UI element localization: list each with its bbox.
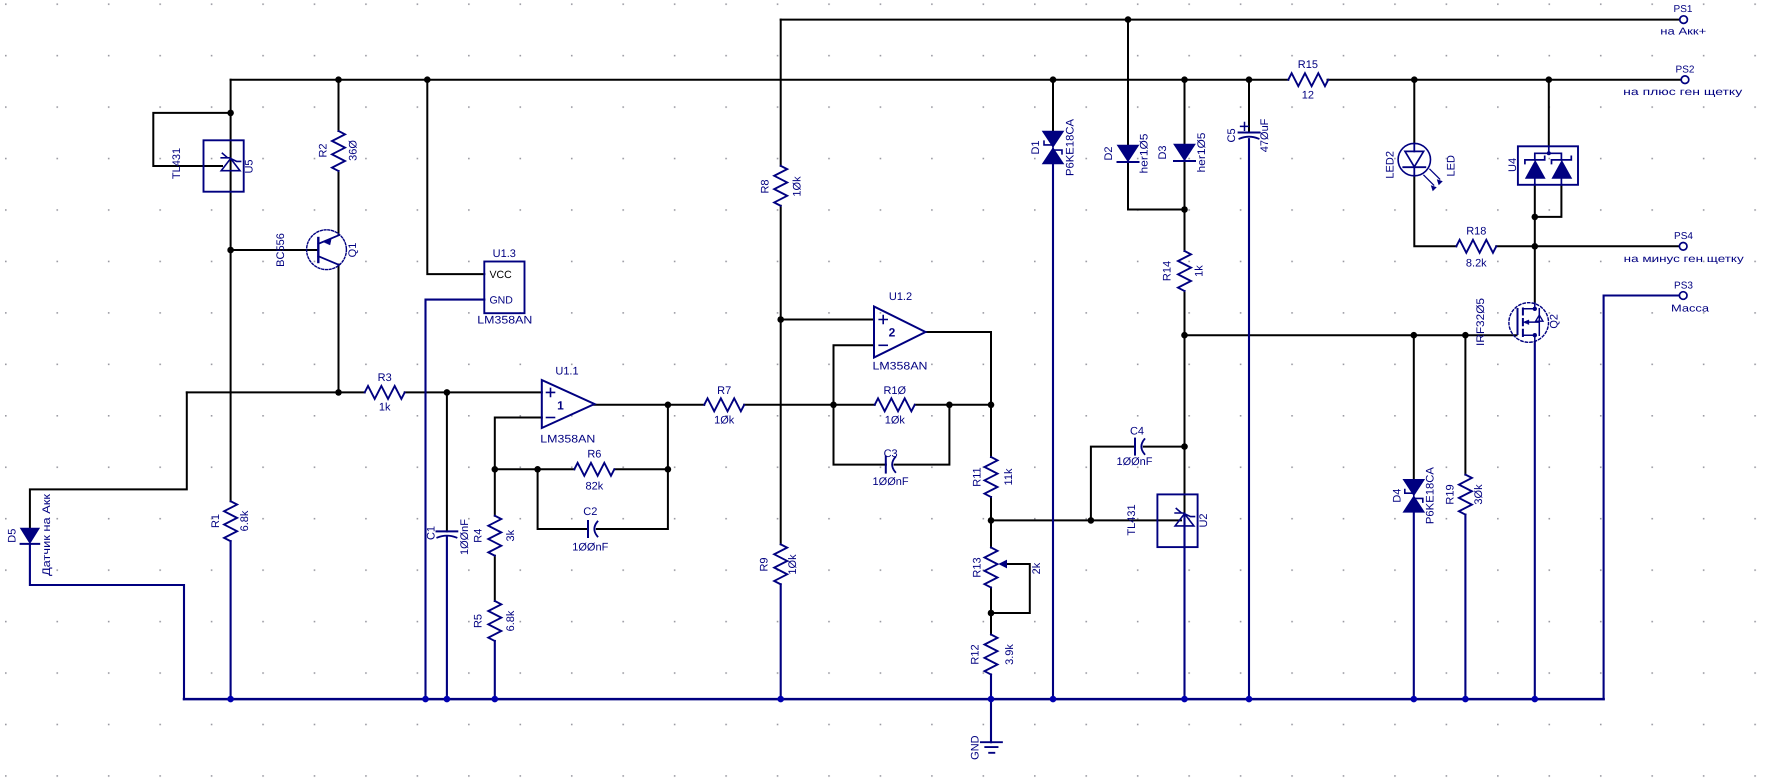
svg-text:D4: D4 xyxy=(1392,489,1404,503)
wire U4 cathode lead xyxy=(1548,80,1550,147)
svg-text:1Øk: 1Øk xyxy=(714,415,735,427)
junction (230.6,250) xyxy=(227,247,234,254)
junction ground rail (1465.4,699.1) xyxy=(1462,696,1469,703)
junction ground rail (425.5,699.1) xyxy=(422,696,429,703)
svg-text:LM358AN: LM358AN xyxy=(477,315,532,327)
junction (1414.3,79.7) xyxy=(1411,76,1418,83)
svg-text:PS2: PS2 xyxy=(1676,65,1695,76)
wire R4 top lead xyxy=(494,469,496,515)
svg-text:R1: R1 xyxy=(210,514,222,528)
wire R8 bottom to R9 top xyxy=(780,206,782,545)
capacitor C3 xyxy=(885,457,887,473)
junction ground rail (1534.8,699.1) xyxy=(1532,696,1539,703)
resistor R5 xyxy=(488,601,501,641)
svg-text:1ØØnF: 1ØØnF xyxy=(873,476,909,488)
svg-text:1ØØnF: 1ØØnF xyxy=(1116,456,1152,468)
TVS diode D4 xyxy=(1403,480,1424,496)
wire R13 top lead xyxy=(990,520,992,547)
wire Q1 emitter down to R3 node xyxy=(338,265,340,393)
resistor R3 xyxy=(365,386,405,399)
wire D5 bottom to ground rail xyxy=(30,545,184,699)
junction (1090.9,520.4) xyxy=(1088,517,1095,524)
svg-text:GND: GND xyxy=(969,735,981,760)
junction (1548.8,79.7) xyxy=(1546,76,1553,83)
wire R19 bottom lead xyxy=(1464,515,1466,700)
svg-text:1: 1 xyxy=(557,398,564,412)
wire C3 right branch xyxy=(895,405,950,465)
wire U1.3 GND xyxy=(426,300,485,699)
pin PS4 xyxy=(1679,243,1687,251)
resistor R10 xyxy=(875,398,915,411)
svg-text:R4: R4 xyxy=(472,529,484,543)
wire LED2 to R18 xyxy=(1414,176,1456,247)
junction (1413.8,335.2) xyxy=(1411,332,1418,339)
svg-text:P6KE18CA: P6KE18CA xyxy=(1425,466,1437,524)
svg-text:36Ø: 36Ø xyxy=(347,140,359,161)
svg-text:1k: 1k xyxy=(379,402,391,414)
shunt regulator U2 TL431 xyxy=(1157,494,1197,547)
wire R5 bottom lead xyxy=(494,641,496,699)
junction (1249,79.7) xyxy=(1246,76,1253,83)
dual schottky U4 xyxy=(1518,146,1578,185)
svg-text:47ØuF: 47ØuF xyxy=(1259,118,1271,152)
svg-text:GND: GND xyxy=(490,294,514,306)
svg-text:1ØØnF: 1ØØnF xyxy=(459,519,471,555)
junction (338.5,392.4) xyxy=(335,389,342,396)
junction ground rail (1053,699.1) xyxy=(1050,696,1057,703)
capacitor C1 xyxy=(437,530,458,532)
resistor R7 xyxy=(704,398,744,411)
svg-text:U4: U4 xyxy=(1507,158,1519,172)
wire U1.2 - input branch xyxy=(834,345,874,405)
op-amp U1.2 xyxy=(874,307,926,358)
resistor R1 xyxy=(224,501,237,541)
wire R11 bottom lead xyxy=(990,497,992,520)
wire R13 wiper link xyxy=(991,564,1030,613)
junction (537.6,469.3) xyxy=(534,466,541,473)
junction ground rail (230.6,699.1) xyxy=(227,696,234,703)
wire GND symbol stub xyxy=(990,699,992,742)
wire feedback node to R6 xyxy=(495,468,575,470)
junction (1534.8,246.3) xyxy=(1532,243,1539,250)
junction (1184.5,209.5) xyxy=(1181,206,1188,213)
svg-text:LM358AN: LM358AN xyxy=(873,360,928,372)
svg-text:3.9k: 3.9k xyxy=(1004,644,1016,665)
wire D1 bottom lead xyxy=(1052,164,1054,699)
diode D5 xyxy=(21,528,40,543)
wire left vertical x=230 xyxy=(230,80,232,502)
resistor R14 xyxy=(1178,251,1191,291)
wire R12 bottom lead xyxy=(990,675,992,700)
svg-text:C1: C1 xyxy=(425,526,437,540)
junction (949.4,404.8) xyxy=(946,402,953,409)
junction ground rail (991,699.1) xyxy=(988,696,995,703)
wire R14 top lead xyxy=(1184,210,1186,252)
junction (494.8,469.3) xyxy=(492,466,499,473)
TVS diode D1 xyxy=(1043,131,1064,147)
svg-text:PS4: PS4 xyxy=(1674,231,1693,242)
svg-text:R14: R14 xyxy=(1161,261,1173,281)
junction ground rail (446.9,699.1) xyxy=(444,696,451,703)
junction (1053,79.7) xyxy=(1050,76,1057,83)
svg-text:R13: R13 xyxy=(971,557,983,577)
wire R4-R5 series link xyxy=(494,556,496,601)
resistor R2 xyxy=(332,131,345,171)
svg-text:U1.2: U1.2 xyxy=(889,291,912,303)
svg-text:R3: R3 xyxy=(378,372,392,384)
svg-text:R1Ø: R1Ø xyxy=(883,385,906,397)
svg-text:LED2: LED2 xyxy=(1385,151,1397,179)
wire PS2 rail right part xyxy=(1328,79,1682,81)
junction (1465.4,335.2) xyxy=(1462,332,1469,339)
wire U1.1 output xyxy=(594,404,704,406)
diode D3 xyxy=(1174,144,1195,160)
wire ground rail xyxy=(184,698,1604,701)
junction (991,613) xyxy=(988,610,995,617)
wire D2 bottom to R14 node xyxy=(1128,163,1185,210)
svg-text:D1: D1 xyxy=(1030,140,1042,154)
svg-text:1Øk: 1Øk xyxy=(787,554,799,575)
wire gate line xyxy=(1185,334,1517,336)
wire U1.1 - input xyxy=(495,418,542,470)
wire PS2 rail left part xyxy=(231,79,1289,81)
resistor R4 xyxy=(488,516,501,556)
diode D2 xyxy=(1118,145,1139,161)
wire R2 bottom to Q1 collector xyxy=(338,171,340,235)
junction (1128,19.6) xyxy=(1125,16,1132,23)
svg-text:P6KE18CA: P6KE18CA xyxy=(1065,118,1077,176)
resistor R6 xyxy=(574,463,614,476)
resistor R12 xyxy=(985,635,998,675)
wire top rail PS1 net xyxy=(781,19,1680,21)
svg-text:LED: LED xyxy=(1446,155,1458,176)
svg-text:C4: C4 xyxy=(1130,425,1144,437)
wire C3 left branch xyxy=(834,405,886,465)
svg-text:Масса: Масса xyxy=(1671,304,1710,315)
svg-text:на плюс ген щетку: на плюс ген щетку xyxy=(1623,87,1742,98)
svg-text:2: 2 xyxy=(889,325,896,339)
wire U2 anode lead xyxy=(1183,514,1185,700)
junction (1184.5,446.6) xyxy=(1181,443,1188,450)
wire R3 right segment to U1.1 + xyxy=(405,391,542,393)
svg-text:12: 12 xyxy=(1302,90,1314,102)
ground symbol GND xyxy=(981,742,1002,753)
svg-text:U1.3: U1.3 xyxy=(493,248,516,260)
junction (991,520.4) xyxy=(988,517,995,524)
svg-text:R9: R9 xyxy=(759,557,771,571)
svg-text:VCC: VCC xyxy=(490,269,513,281)
resistor R15 xyxy=(1288,73,1328,86)
junction (991,404.8) xyxy=(988,402,995,409)
svg-text:3k: 3k xyxy=(505,529,517,541)
wire U4 anode leads xyxy=(1535,185,1562,217)
svg-text:D2: D2 xyxy=(1103,146,1115,160)
junction (1184.5,335.2) xyxy=(1181,332,1188,339)
wire R12 top lead xyxy=(990,613,992,635)
pin PS1 xyxy=(1680,16,1688,24)
LED LED2 xyxy=(1398,143,1430,175)
svg-text:на минус ген щетку: на минус ген щетку xyxy=(1624,254,1744,265)
svg-text:1ØØnF: 1ØØnF xyxy=(572,541,608,553)
trimmer R13 xyxy=(985,548,998,588)
wire Q1 base xyxy=(231,249,317,251)
wire D2 column xyxy=(1127,20,1129,146)
svg-text:PS3: PS3 xyxy=(1674,281,1693,292)
svg-text:C3: C3 xyxy=(884,448,898,460)
junction (230.6,112.9) xyxy=(227,110,234,117)
svg-text:R19: R19 xyxy=(1445,484,1457,504)
svg-text:C5: C5 xyxy=(1226,128,1238,142)
wire R11 top lead xyxy=(990,405,992,457)
capacitor C4 xyxy=(1134,439,1136,455)
wire R18 right to PS4 xyxy=(1496,245,1679,247)
wire PS3 Massa line xyxy=(1604,296,1680,700)
junction (446.9,392.4) xyxy=(444,389,451,396)
wire U1.2 output xyxy=(926,332,992,405)
wire R13 bottom lead xyxy=(990,588,992,614)
wire C1 top lead xyxy=(446,392,448,531)
op-amp power U1.3 xyxy=(484,262,524,314)
wire U1.2 + input xyxy=(781,319,874,321)
wire R19 top lead xyxy=(1464,335,1466,474)
junction ground rail (1413.8,699.1) xyxy=(1411,696,1418,703)
svg-text:IRF32Ø5: IRF32Ø5 xyxy=(1475,298,1487,346)
svg-text:82k: 82k xyxy=(586,480,604,492)
wire TL431 U2 ref line xyxy=(991,519,1181,521)
svg-text:R2: R2 xyxy=(318,143,330,157)
svg-text:R7: R7 xyxy=(717,385,731,397)
svg-text:на Акк+: на Акк+ xyxy=(1660,26,1706,37)
svg-text:PS1: PS1 xyxy=(1674,4,1693,15)
resistor R9 xyxy=(774,544,787,584)
svg-text:D3: D3 xyxy=(1157,145,1169,159)
wire D4 bottom lead xyxy=(1413,513,1415,699)
svg-text:Q1: Q1 xyxy=(347,243,359,258)
wire U1.3 VCC xyxy=(427,80,484,274)
wire R14 node down to U2 cathode xyxy=(1184,335,1186,514)
svg-text:her1Ø5: her1Ø5 xyxy=(1196,133,1208,173)
svg-text:TL431: TL431 xyxy=(171,148,183,179)
capacitor C5 polarized xyxy=(1239,132,1260,134)
shunt regulator U5 TL431 xyxy=(204,140,244,191)
svg-text:U1.1: U1.1 xyxy=(555,366,578,378)
wire R2 top lead xyxy=(338,80,340,131)
svg-text:R15: R15 xyxy=(1298,59,1318,71)
junction ground rail (780.7,699.1) xyxy=(777,696,784,703)
wire Q2 source lead xyxy=(1534,342,1536,699)
junction (667.9,404.8) xyxy=(665,402,672,409)
wire C5 top lead xyxy=(1248,80,1250,133)
svg-text:11k: 11k xyxy=(1003,468,1015,485)
junction ground rail (1249,699.1) xyxy=(1246,696,1253,703)
svg-text:1Øk: 1Øk xyxy=(791,176,803,197)
svg-text:R11: R11 xyxy=(971,467,983,486)
junction (1184.5,79.7) xyxy=(1181,76,1188,83)
wire C4 left branch xyxy=(1091,447,1135,521)
svg-text:C2: C2 xyxy=(583,506,597,518)
junction ground rail (1184.5,699.1) xyxy=(1181,696,1188,703)
svg-text:TL431: TL431 xyxy=(1126,504,1138,535)
svg-text:1Øk: 1Øk xyxy=(885,415,906,427)
wire LED2 top lead xyxy=(1413,80,1415,144)
svg-text:8.2k: 8.2k xyxy=(1466,257,1487,269)
svg-text:2k: 2k xyxy=(1031,562,1043,574)
svg-text:BC556: BC556 xyxy=(275,233,287,267)
junction (338.5,79.7) xyxy=(335,76,342,83)
resistor R19 xyxy=(1459,475,1472,515)
junction (780.7,319.5) xyxy=(777,316,784,323)
MOSFET Q2 IRF3205 xyxy=(1509,303,1549,343)
pin PS2 xyxy=(1681,76,1689,84)
wire U4 node to Q2 drain xyxy=(1534,217,1536,303)
wire D1 top lead xyxy=(1052,80,1054,131)
junction (667.9,469.3) xyxy=(665,466,672,473)
wire TL431 U5 ref loop xyxy=(153,113,230,166)
svg-text:R12: R12 xyxy=(969,644,981,664)
svg-text:Q2: Q2 xyxy=(1548,314,1560,329)
junction (427.3,79.7) xyxy=(424,76,431,83)
resistor R11 xyxy=(985,457,998,497)
transistor Q1 BC556 PNP xyxy=(307,230,347,270)
svg-text:D5: D5 xyxy=(6,529,18,543)
wire C5 bottom lead xyxy=(1248,139,1250,699)
capacitor C2 xyxy=(587,521,589,537)
wire D3 top lead xyxy=(1184,80,1186,145)
svg-text:R18: R18 xyxy=(1466,225,1486,237)
svg-text:R8: R8 xyxy=(759,179,771,193)
junction ground rail (494.8,699.1) xyxy=(492,696,499,703)
svg-text:U2: U2 xyxy=(1198,513,1210,527)
svg-text:6.8k: 6.8k xyxy=(505,610,517,631)
svg-text:1k: 1k xyxy=(1193,265,1205,277)
wire R7 to R10 segment xyxy=(744,404,875,406)
wire R1 bottom lead xyxy=(230,541,232,699)
svg-text:R6: R6 xyxy=(587,449,601,461)
wire R10 right segment xyxy=(915,404,991,406)
wire C2 left branch xyxy=(538,469,588,529)
svg-text:R5: R5 xyxy=(472,614,484,628)
svg-text:6.8k: 6.8k xyxy=(239,510,251,531)
resistor R8 xyxy=(774,166,787,206)
svg-text:Датчик на Акк: Датчик на Акк xyxy=(41,494,53,576)
wire R9 bottom lead xyxy=(780,584,782,699)
pin PS3 xyxy=(1679,292,1687,300)
wire sensor input vertical xyxy=(30,392,187,528)
op-amp U1.1 xyxy=(542,380,595,428)
wire C4 right lead xyxy=(1144,446,1185,448)
junction (1534.8,216.9) xyxy=(1532,214,1539,221)
wire R3 left segment xyxy=(187,391,365,393)
svg-text:3Øk: 3Øk xyxy=(1473,484,1485,505)
wire C2 right branch xyxy=(597,405,668,529)
wire D4 top lead xyxy=(1413,335,1415,479)
svg-text:her1Ø5: her1Ø5 xyxy=(1139,134,1151,174)
wire R14 bottom lead xyxy=(1184,291,1186,335)
wire R6 right lead xyxy=(615,468,668,470)
wire C1 bottom lead xyxy=(446,536,448,699)
resistor R18 xyxy=(1456,240,1496,253)
wire D3 bottom lead xyxy=(1184,162,1186,210)
svg-text:LM358AN: LM358AN xyxy=(540,433,595,445)
svg-text:U5: U5 xyxy=(244,159,256,173)
junction (833.5,404.8) xyxy=(830,402,837,409)
